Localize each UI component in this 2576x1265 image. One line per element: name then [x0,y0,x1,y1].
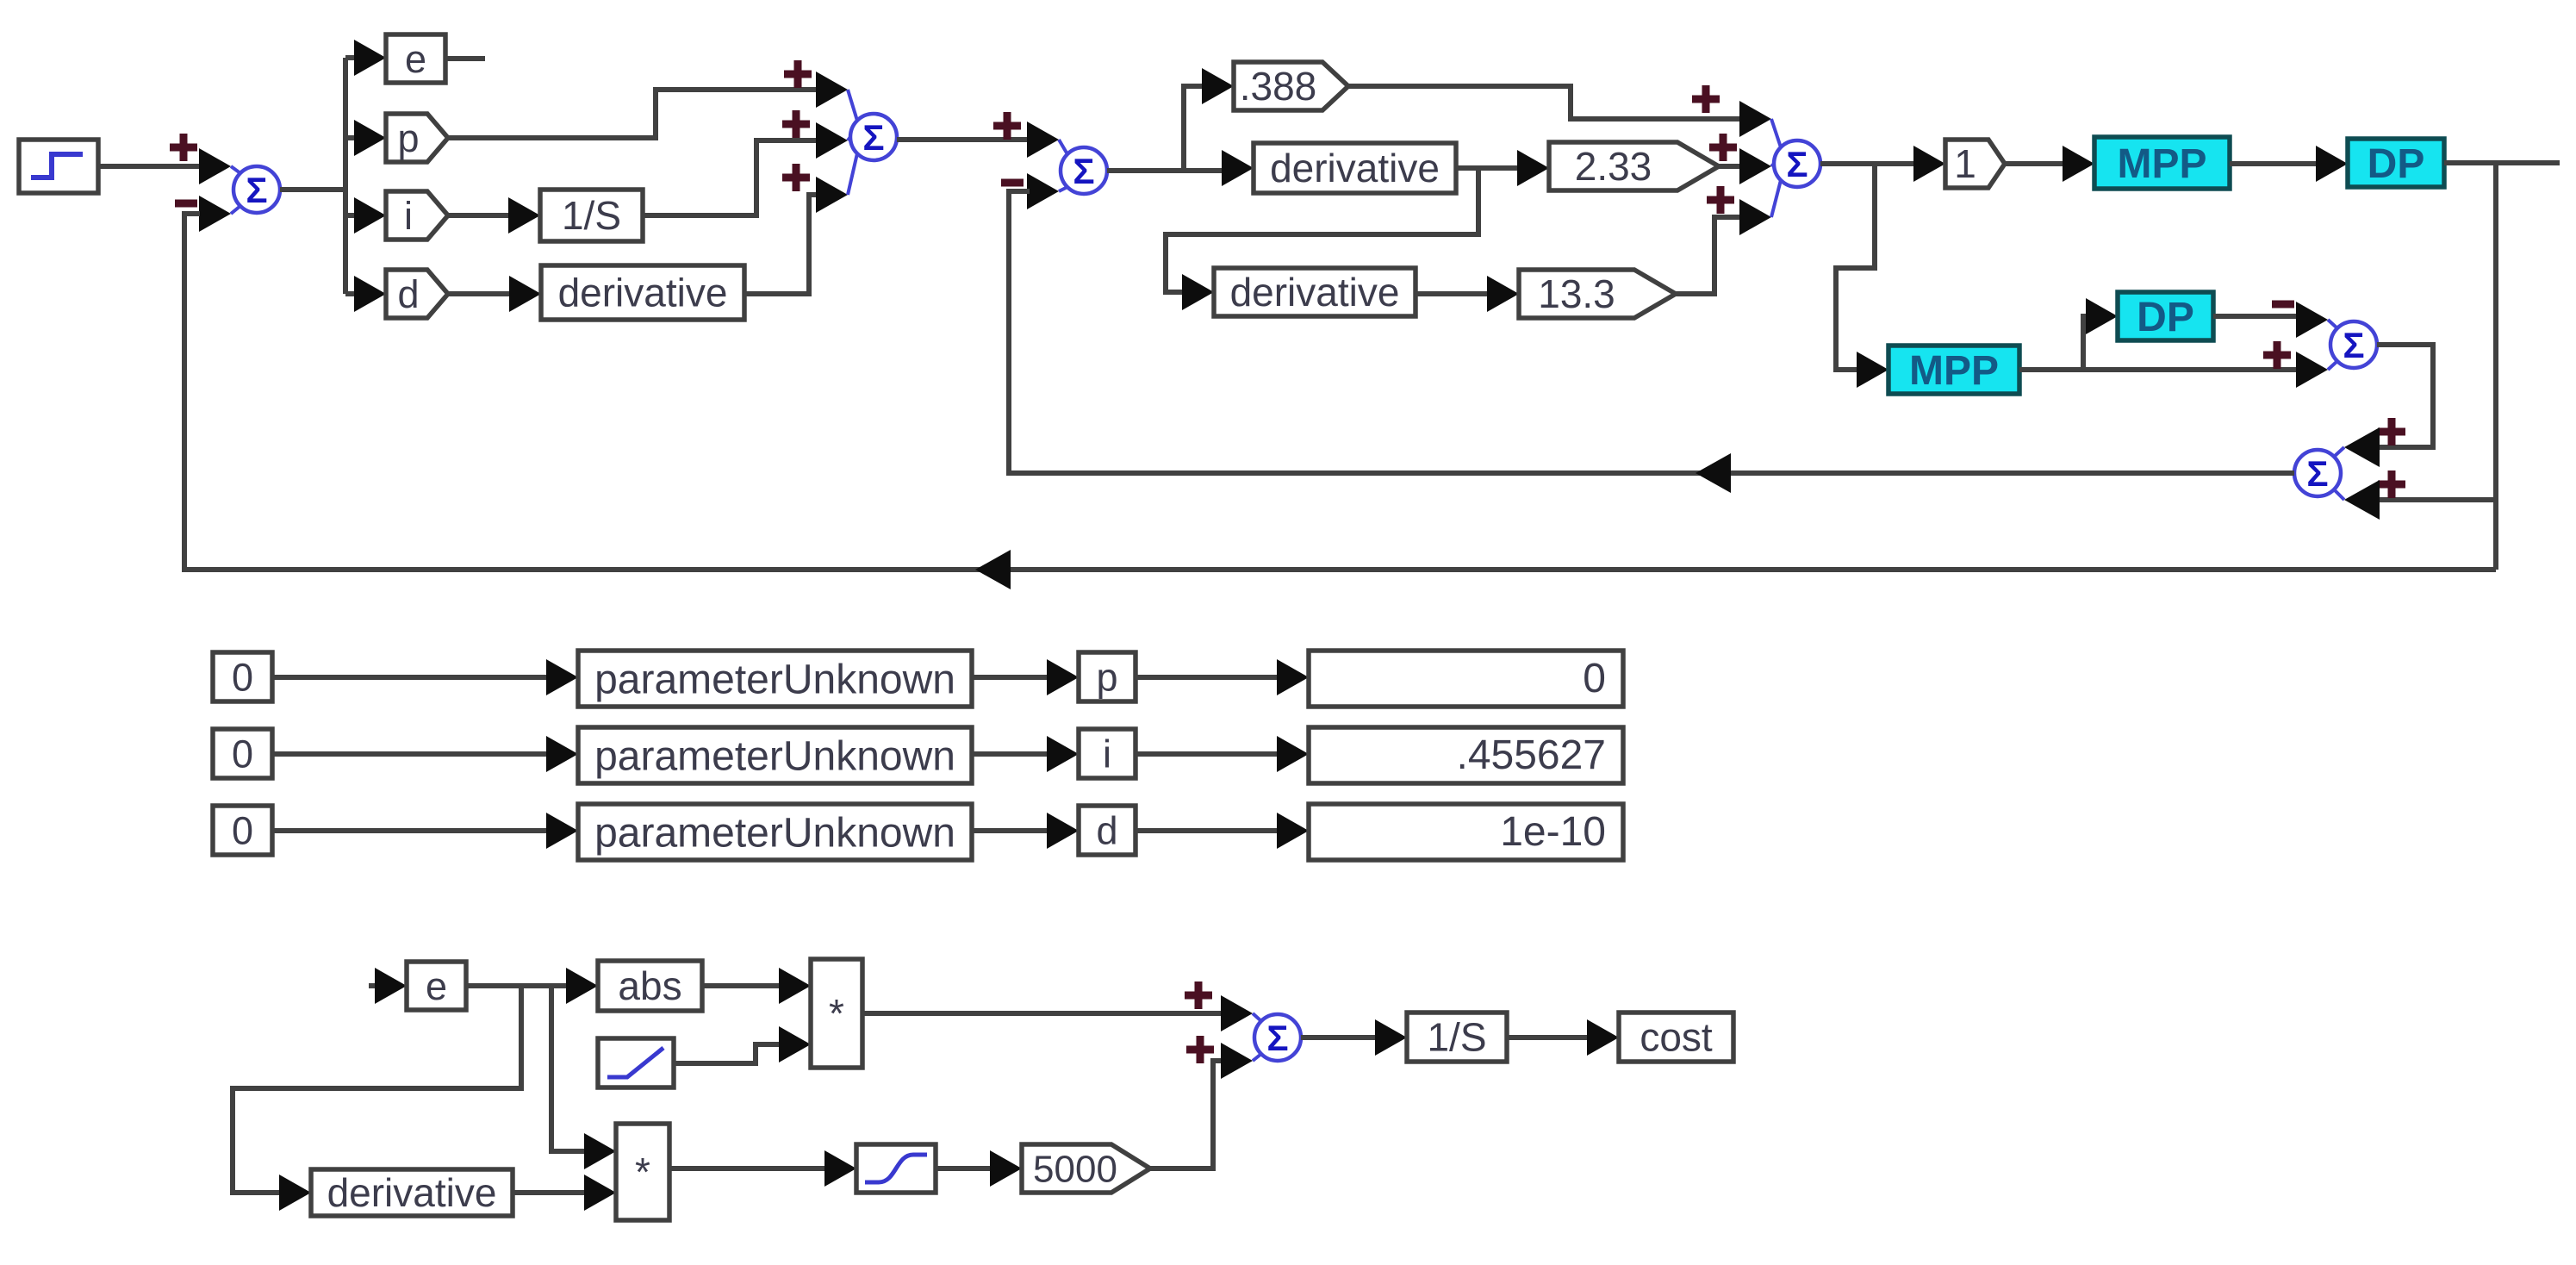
summing junction S1 [231,166,280,214]
arrowhead into display row 1 [1277,659,1309,695]
constant 0 source row 1 [213,652,272,701]
svg-text:MPP: MPP [2117,141,2206,187]
wire branch e down to multiplier M2 [551,986,587,1151]
minus sign S1 bottom input [175,200,197,208]
variable block cost [1619,1013,1733,1062]
svg-text:MPP: MPP [1909,348,1999,394]
minus sign S5 top input [2272,301,2294,308]
svg-text:parameterUnknown: parameterUnknown [594,810,955,856]
arrowhead into DP upper [2316,146,2348,182]
arrowhead M2 bottom input [584,1175,616,1211]
arrowhead into e lower [375,968,407,1004]
gain block 13.3 [1519,270,1676,318]
svg-text:e: e [426,964,447,1008]
arrowhead S1 bottom input [199,196,231,232]
variable block d [386,270,448,318]
arrowhead into display row 3 [1277,813,1309,849]
wire branch D2 input to derivative D3 [1166,168,1478,292]
arrowhead S6 top input [2344,427,2380,467]
arrowhead into derivative D2 [1222,150,1254,186]
wire S1 output to trunk [280,187,345,192]
wire DP lower output to summer S5 [2213,314,2299,319]
plus sign S1 top input [170,134,197,161]
svg-text:1/S: 1/S [1427,1015,1486,1060]
gain block 2.33 [1549,142,1719,190]
arrowhead into parameterUnknown row 2 [546,736,578,772]
arrowhead S2 middle input [816,122,848,159]
arrowhead into 2.33 [1517,150,1549,186]
plus sign S4 bottom input [1707,186,1734,214]
wire p to display row 1 [1136,675,1279,680]
svg-text:d: d [1096,808,1117,852]
limiter icon [607,1048,663,1077]
wire S7 output to integrator 1/S [1301,1035,1378,1040]
sigmoid icon [865,1155,927,1182]
sigmoid block [856,1144,936,1193]
wire 0 to parameterUnknown row 1 [272,675,549,680]
svg-text:derivative: derivative [558,271,728,315]
arrowhead S3 plus input [1027,122,1059,158]
svg-text:0: 0 [1583,656,1606,701]
wire 2.33 output to summer S4 [1719,164,1742,169]
wire sigmoid to gain 5000 [936,1166,992,1171]
arrowhead into derivative D1 [509,276,541,312]
wire step to summer S1 [98,164,202,169]
summing junction S7 [1253,1013,1301,1061]
svg-text:13.3: 13.3 [1538,271,1615,316]
wire e lower output [466,983,569,988]
variable block p [386,114,448,162]
abs block [598,961,702,1011]
arrowhead on long feedback line [975,550,1011,589]
wire 0 to parameterUnknown row 3 [272,828,549,833]
gain block 5000 [1022,1144,1150,1193]
svg-text:Σ: Σ [1073,151,1094,191]
arrowhead into p [354,120,386,156]
wire trunk to i [345,213,356,218]
derivative block D3 [1214,268,1416,316]
arrowhead into derivative D3 [1182,274,1214,310]
plant block MPP upper [2094,137,2230,189]
wire S5 output down to summer S6 [2377,345,2433,447]
wire S2 output to S3 [897,137,1030,142]
svg-text:i: i [404,194,413,238]
plus sign S6 bottom input [2378,470,2405,498]
svg-text:Σ: Σ [1266,1018,1288,1058]
arrowhead into derivative D4 [279,1175,311,1211]
summing junction S4 [1771,119,1820,217]
wire trunk vertical [343,58,348,294]
svg-text:*: * [635,1150,650,1194]
display block row 2 value .455627 [1309,727,1623,783]
wire derivative D1 output to summer S2 [744,195,818,294]
display block row 3 value 1e-10 [1309,804,1623,860]
plant block DP lower [2118,292,2213,340]
arrowhead S6 bottom input [2344,480,2380,520]
wire i to integrator [448,213,510,218]
arrowhead into 13.3 [1487,276,1519,312]
wire branch e down to derivative D4 [233,986,521,1193]
step source icon [31,154,83,178]
wire branch up to DP lower [2083,316,2088,370]
wire DP output stub right [2444,160,2560,165]
wire right side to S6 bottom input [2377,497,2496,502]
plus sign S3 top input [993,112,1021,140]
wire i to display row 2 [1136,751,1279,757]
gain block 1 [1945,140,2005,188]
wire trunk to e [345,55,356,60]
arrowhead into MPP upper [2063,146,2094,182]
variable block d row 3 [1079,806,1136,855]
svg-text:0: 0 [232,732,253,776]
derivative block D4 [311,1169,513,1216]
summing junction S2 [848,90,897,195]
multiplier block M2 [616,1124,669,1220]
arrowhead S3 minus input [1027,173,1059,209]
svg-text:5000: 5000 [1033,1148,1117,1190]
constant 0 source row 2 [213,729,272,778]
arrowhead S4 bottom input [1739,199,1771,235]
plus sign S6 top input [2378,418,2405,446]
arrowhead S5 bottom input [2296,352,2328,388]
constant 0 source row 3 [213,806,272,855]
svg-text:2.33: 2.33 [1575,144,1652,189]
svg-text:Σ: Σ [2306,453,2328,494]
arrowhead M1 top input [779,968,811,1004]
arrowhead S7 bottom input [1221,1043,1253,1079]
wire S3 output bus [1107,168,1223,173]
svg-text:parameterUnknown: parameterUnknown [594,657,955,702]
plus sign S7 top input [1185,981,1212,1009]
arrowhead S5 top input [2296,302,2328,338]
svg-text:derivative: derivative [1270,146,1440,190]
svg-text:d: d [397,272,419,316]
svg-text:DP: DP [2368,141,2425,187]
wire branch S4 output down to MPP lower [1836,164,1875,370]
display block row 1 value 0 [1309,651,1623,707]
svg-text:Σ: Σ [862,117,884,158]
svg-text:0: 0 [232,808,253,852]
wire MPP lower output to summer S5 [2019,367,2299,372]
arrowhead into 1/S [508,197,540,234]
variable block e lower [407,962,466,1010]
svg-text:parameterUnknown: parameterUnknown [594,733,955,779]
wire 1 to MPP [2005,161,2065,166]
wire parameterUnknown to p [972,675,1049,680]
arrowhead into unit gain 1 [1913,146,1945,182]
plus sign S7 bottom input [1186,1036,1214,1063]
wire branch riser to gain .388 [1184,86,1204,171]
svg-text:Σ: Σ [246,170,267,210]
arrowhead M2 top input [584,1133,616,1169]
arrowhead into 1/S lower [1375,1019,1407,1056]
wire 1/S output to summer S2 [643,140,818,215]
arrowhead into variable d [1047,813,1079,849]
integrator block 1/S [540,190,643,241]
wire MPP to DP [2230,161,2318,166]
svg-text:DP: DP [2137,295,2194,340]
wire derivative D4 to multiplier M2 [513,1190,587,1195]
wire 13.3 output to summer S4 [1676,217,1742,294]
wire D3 output to gain 13.3 [1416,291,1490,296]
svg-text:0: 0 [232,655,253,699]
svg-text:1e-10: 1e-10 [1500,809,1606,855]
arrowhead S1 top input [199,148,231,184]
svg-text:*: * [829,991,844,1036]
multiplier block M1 [811,959,862,1068]
arrowhead into MPP lower [1857,352,1888,388]
wire p output to summer S2 [448,90,818,138]
wire limiter to multiplier M1 [674,1044,781,1063]
derivative block D2 [1254,143,1456,193]
wire M2 output to sigmoid [669,1166,827,1171]
wire S4 output [1820,161,1916,166]
svg-text:Σ: Σ [2343,325,2364,365]
wire trunk to d [345,291,356,296]
svg-text:1/S: 1/S [562,193,621,238]
wire parameterUnknown to i [972,751,1049,757]
arrowhead S4 top input [1739,101,1771,137]
svg-text:.388: .388 [1240,64,1317,109]
variable block p row 1 [1079,652,1136,701]
arrowhead S7 top input [1221,995,1253,1031]
arrowhead into parameterUnknown row 3 [546,813,578,849]
svg-text:Σ: Σ [1786,144,1808,184]
arrowhead into parameterUnknown row 1 [546,659,578,695]
integrator block 1/S lower [1407,1013,1507,1062]
parameterUnknown block row 3 [578,804,972,860]
derivative block D1 [541,265,744,320]
svg-text:derivative: derivative [1230,270,1400,315]
arrowhead into variable i [1047,736,1079,772]
plus sign S5 bottom input [2263,341,2291,369]
arrowhead into .388 [1202,68,1234,104]
wire .388 output to summer S4 [1348,86,1742,119]
arrowhead M1 bottom input [779,1026,811,1062]
svg-text:1: 1 [1954,141,1976,186]
arrowhead S2 top input [816,72,848,108]
arrowhead into DP lower [2086,298,2118,334]
wire S6 output feedback to S3 [1009,191,2294,473]
arrowhead into e [354,40,386,76]
summing junction S3 [1059,140,1107,194]
wire DP output down right side [2493,163,2498,570]
svg-text:.455627: .455627 [1456,732,1606,778]
plant block MPP lower [1888,346,2019,394]
wire 1/S lower to cost [1507,1035,1590,1040]
arrowhead into display row 2 [1277,736,1309,772]
variable block i row 2 [1079,729,1136,778]
svg-text:e: e [405,37,426,81]
wire parameterUnknown to d [972,828,1049,833]
svg-text:p: p [1096,655,1117,699]
svg-text:abs: abs [618,963,681,1008]
summing junction S6 [2294,447,2344,500]
limiter block [598,1038,674,1087]
plant block DP upper [2348,139,2444,187]
parameterUnknown block row 2 [578,727,972,783]
minus sign S3 bottom input [1001,179,1024,187]
svg-text:derivative: derivative [327,1170,497,1215]
plus sign S4 middle input [1709,134,1737,161]
arrowhead S2 bottom input [816,177,848,213]
arrowhead into i [354,197,386,234]
svg-text:cost: cost [1640,1015,1713,1060]
wire 0 to parameterUnknown row 2 [272,751,549,757]
summing junction S5 [2328,320,2377,370]
step source block [19,140,98,193]
gain block .388 [1234,62,1348,110]
variable block e [386,34,445,83]
wire 5000 output to summer S7 [1150,1061,1223,1168]
wire long feedback to S1 [184,214,2496,570]
svg-text:i: i [1103,732,1111,776]
plus sign S2 top input [784,60,812,88]
wire input stub to e lower [369,983,377,988]
wire M1 output to summer S7 [862,1011,1223,1016]
parameterUnknown block row 1 [578,651,972,707]
arrowhead on S6 feedback line [1696,453,1731,493]
arrowhead into 5000 [990,1150,1022,1187]
arrowhead into d [354,276,386,312]
svg-text:p: p [397,116,419,160]
plus sign S2 middle input [782,110,810,138]
plus sign S4 top input [1692,85,1720,113]
arrowhead into abs [566,968,598,1004]
wire D2 output to gain 2.33 [1456,165,1520,171]
variable block i [386,191,448,240]
wire d to derivative [448,291,511,296]
arrowhead into sigmoid [824,1150,856,1187]
arrowhead into variable p [1047,659,1079,695]
plus sign S2 bottom input [782,164,810,191]
wire e output stub [445,56,485,61]
wire abs to multiplier M1 [702,983,781,988]
arrowhead S4 middle input [1739,148,1771,184]
wire trunk to p [345,135,356,140]
wire d to display row 3 [1136,828,1279,833]
arrowhead into cost [1587,1019,1619,1056]
